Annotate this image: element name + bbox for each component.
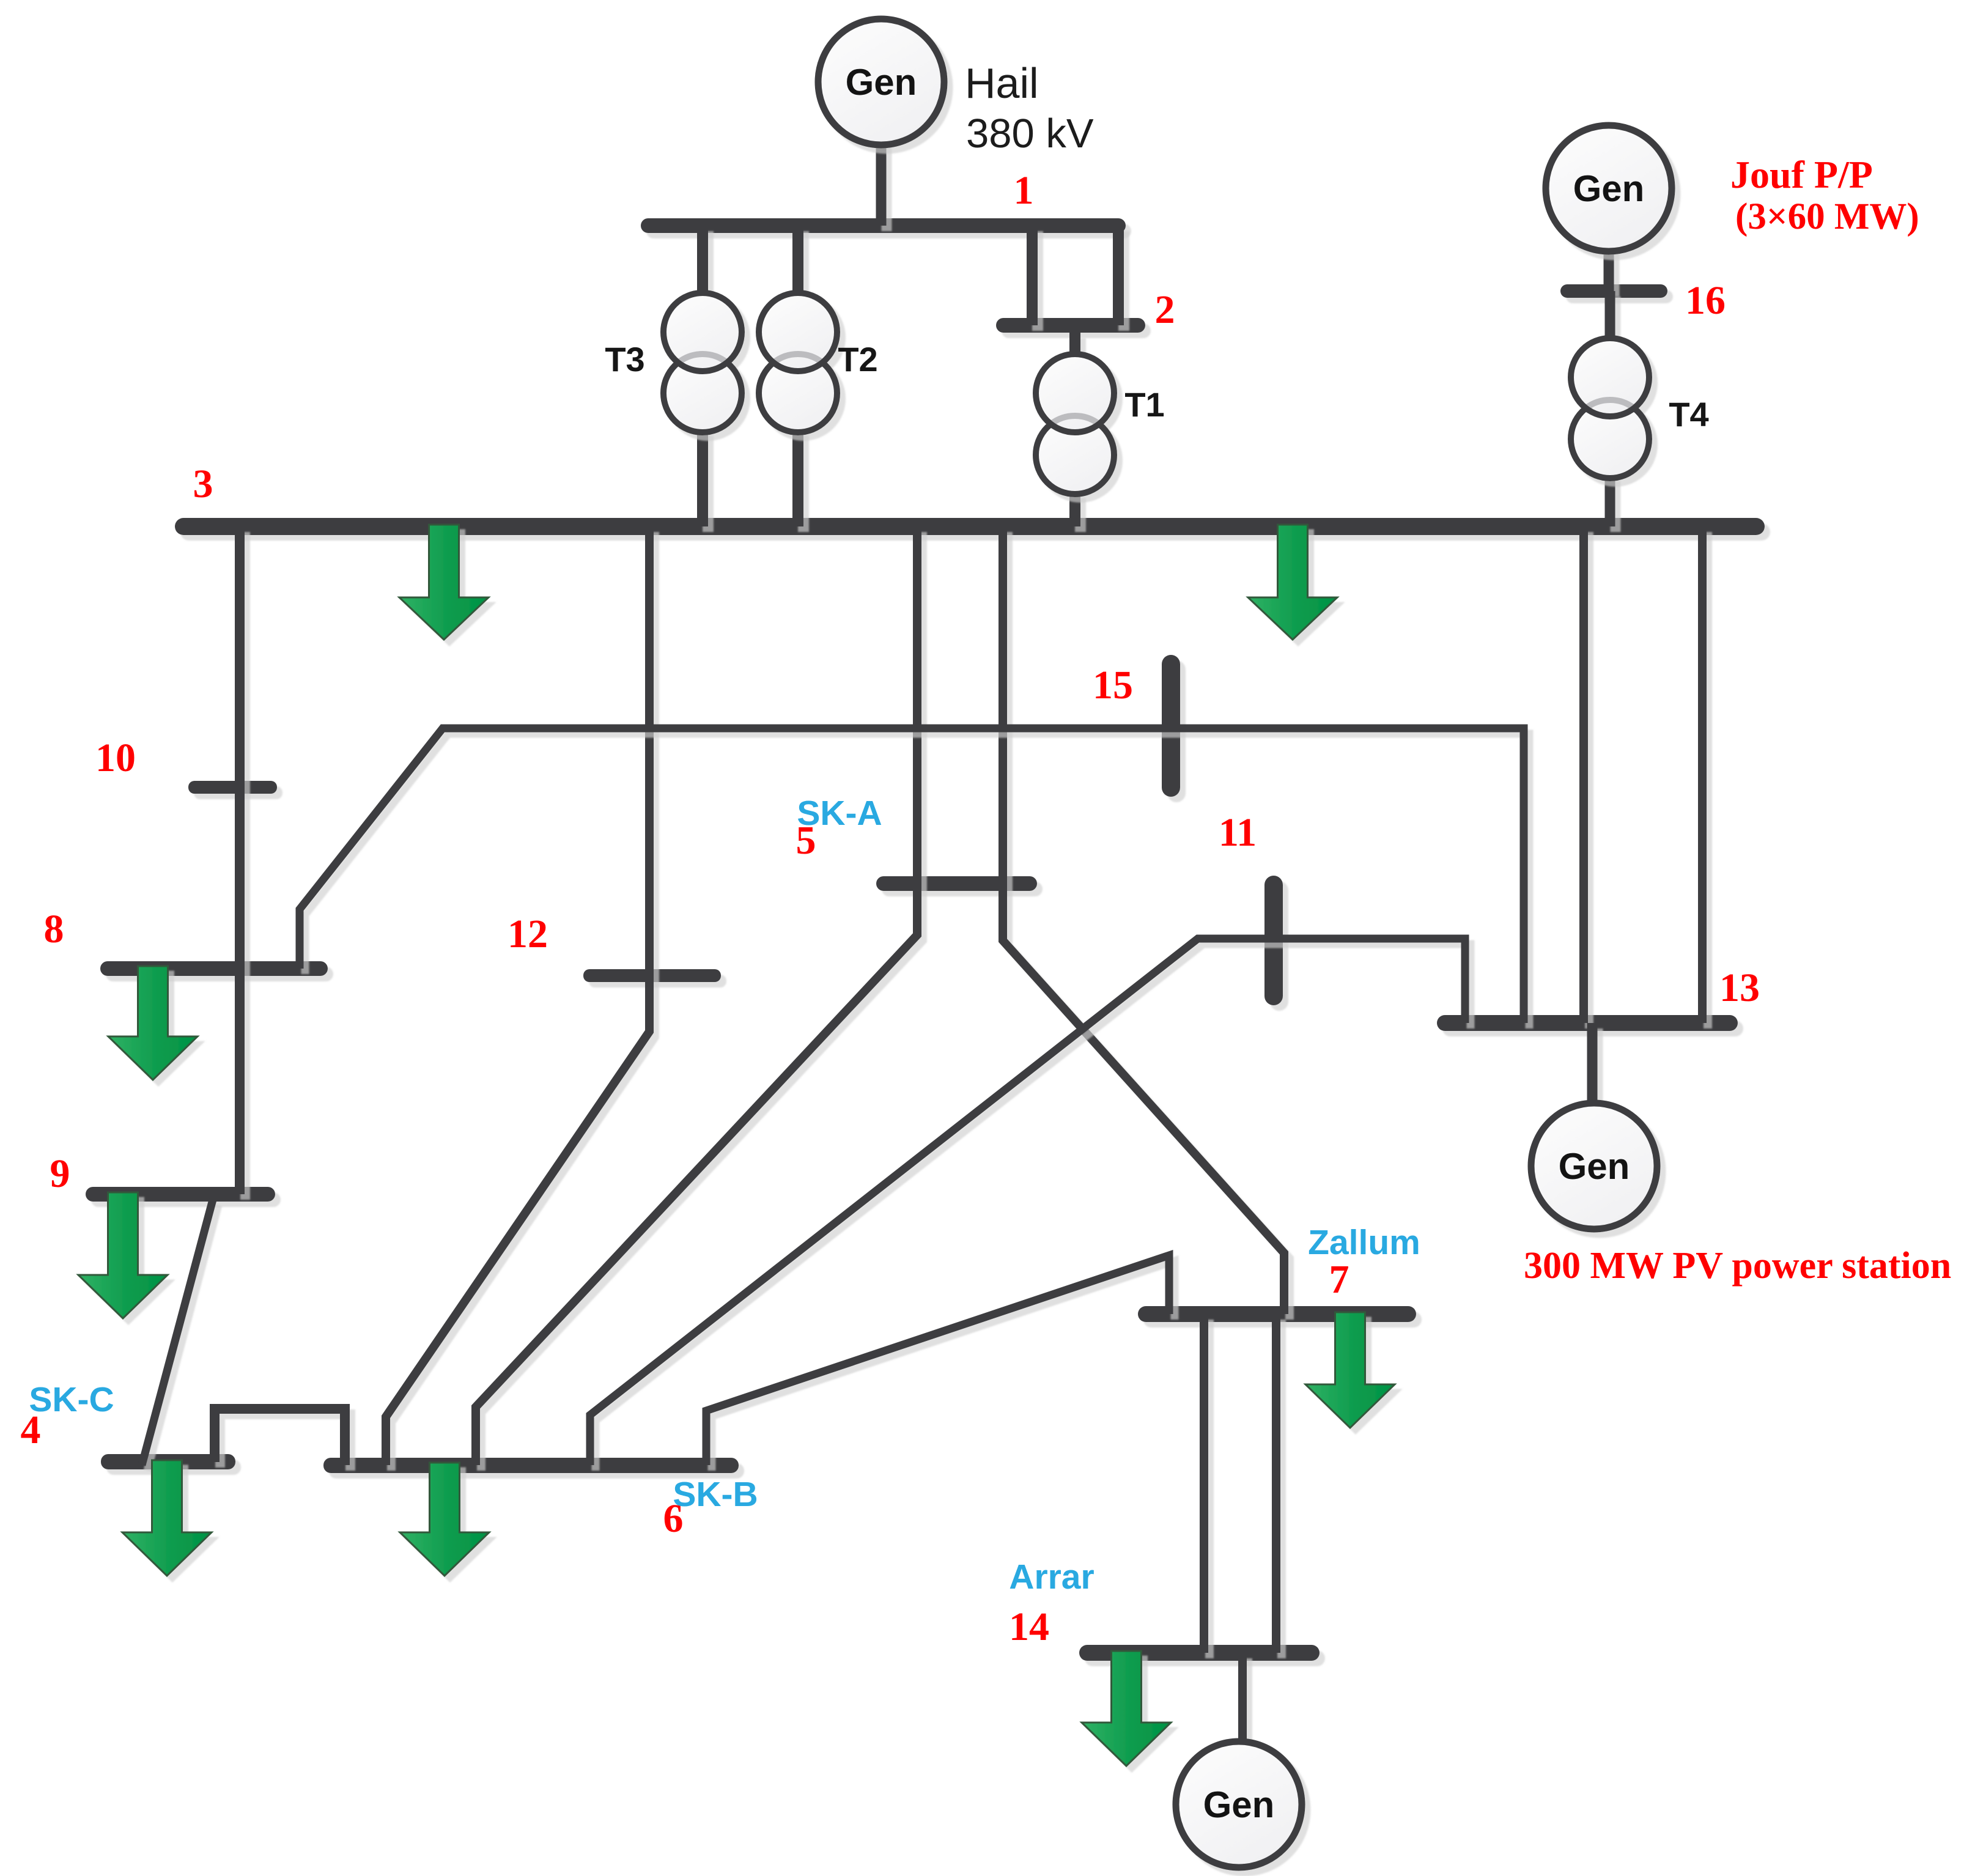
svg-text:300 MW PV power station: 300 MW PV power station (1524, 1245, 1951, 1287)
svg-text:380 kV: 380 kV (966, 111, 1094, 157)
load arrow on bus 6 (400, 1463, 489, 1576)
wire bus 1 to T2 (792, 226, 803, 297)
load arrow on bus 14 (1082, 1651, 1171, 1766)
generator Gen (Hail) (818, 19, 944, 145)
svg-text:T3: T3 (605, 340, 644, 379)
svg-text:SK-B: SK-B (673, 1475, 758, 1514)
svg-text:Gen: Gen (1573, 168, 1645, 209)
svg-text:SK-C: SK-C (29, 1380, 114, 1419)
line bus 7 to bus 14 (left) (1200, 1314, 1208, 1653)
svg-text:T2: T2 (838, 340, 877, 379)
svg-text:2: 2 (1155, 287, 1175, 332)
wire bus 13 to PV Gen (1587, 1023, 1598, 1107)
generator Gen (Arrar) (1176, 1741, 1302, 1867)
bus 3 (main 380 kV bus) (175, 518, 1765, 535)
svg-text:Zallum: Zallum (1308, 1223, 1420, 1262)
load arrow on bus 3 (right) (1248, 525, 1337, 640)
svg-text:16: 16 (1685, 278, 1726, 323)
bus 7 (Zallum busbar) (1138, 1306, 1416, 1322)
bus 12 (583, 969, 721, 982)
wire Gen Hail to bus 1 (876, 138, 887, 226)
wire bus 16 to T4 (1605, 291, 1615, 341)
bus 9 (86, 1187, 275, 1202)
bus 6 (SK-B busbar) (323, 1458, 739, 1473)
line bus 6 to bus 7 (706, 1255, 1169, 1465)
svg-text:Gen: Gen (1559, 1146, 1630, 1187)
line bus 4 to bus 6 (bridge) (215, 1409, 345, 1465)
svg-text:10: 10 (95, 736, 136, 780)
bus 14 (Arrar busbar) (1079, 1645, 1320, 1661)
bus 15 (vertical bar) (1162, 655, 1180, 797)
wire bus 1 to T3 (697, 226, 708, 297)
svg-text:13: 13 (1719, 966, 1760, 1010)
bus 10 (188, 781, 277, 794)
load arrow on bus 7 (1305, 1312, 1395, 1428)
wire bus 1 to bus 2 (left) (1027, 226, 1038, 325)
line bus 3 to bus 13 (left) (1579, 526, 1588, 1023)
line bus 3 through bus 12 to bus 6 (386, 526, 649, 1465)
load arrow on bus 3 (left) (399, 525, 489, 640)
svg-text:T1: T1 (1124, 385, 1164, 424)
line bus 6 through bus 11 to bus 13 (590, 939, 1465, 1465)
svg-text:12: 12 (508, 912, 548, 956)
transformer T4 (1571, 338, 1649, 478)
transformer T2 (759, 293, 837, 432)
svg-text:Gen: Gen (1203, 1784, 1275, 1825)
line bus 8 through bus 15 to bus 13 (300, 728, 1524, 1023)
svg-text:8: 8 (44, 907, 64, 951)
generator Gen (300 MW PV) (1531, 1103, 1657, 1229)
line bus 3 through bus 5 to bus 6 (476, 526, 917, 1465)
svg-text:T4: T4 (1669, 395, 1708, 434)
bus 11 (vertical bar) (1264, 876, 1283, 1005)
svg-text:Hail: Hail (965, 59, 1039, 107)
svg-text:14: 14 (1009, 1605, 1049, 1649)
line bus 3 to bus 13 (right) (1698, 526, 1707, 1023)
line bus 3 to bus 9 (235, 526, 245, 1194)
line bus 7 to bus 14 (right) (1272, 1314, 1280, 1653)
transformer T3 (663, 293, 742, 432)
svg-text:Gen: Gen (846, 62, 917, 103)
bus 16 (1560, 284, 1667, 298)
svg-text:9: 9 (50, 1151, 70, 1196)
wire bus 14 to Gen (1238, 1653, 1247, 1744)
svg-text:(3×60 MW): (3×60 MW) (1735, 196, 1919, 237)
bus 2 (996, 318, 1145, 333)
svg-text:3: 3 (193, 462, 213, 506)
bus 1 (Hail 380 kV busbar) (641, 218, 1126, 233)
wire bus 2 to T1 (1069, 333, 1080, 358)
svg-text:1: 1 (1014, 168, 1034, 213)
svg-text:11: 11 (1219, 810, 1257, 855)
wire T1 to bus 3 (1069, 492, 1080, 526)
load arrow on bus 8 (108, 966, 197, 1080)
wire T4 to bus 3 (1605, 476, 1615, 526)
svg-text:Jouf P/P: Jouf P/P (1730, 153, 1873, 196)
wire Gen Jouf to bus 16 (1604, 248, 1614, 291)
svg-text:Arrar: Arrar (1009, 1557, 1094, 1597)
svg-text:SK-A: SK-A (797, 794, 882, 833)
transformer T1 (1036, 354, 1114, 494)
load arrow on bus 4 (122, 1460, 212, 1576)
line bus 3 through bus 5 to bus 7 (1003, 526, 1284, 1314)
line bus 9 to bus 4 (142, 1200, 213, 1465)
svg-text:7: 7 (1329, 1257, 1349, 1302)
bus 13 (1437, 1015, 1738, 1031)
wire bus 1 to bus 2 (right) (1113, 226, 1124, 325)
bus 4 (SK-C busbar) (101, 1454, 235, 1469)
load arrow on bus 9 (78, 1192, 168, 1318)
bus 8 (100, 961, 328, 976)
generator Gen (Jouf P/P) (1546, 125, 1672, 251)
wire T2 to bus 3 (792, 430, 803, 526)
wire T3 to bus 3 (697, 430, 708, 526)
bus 5 (SK-A busbar) (876, 876, 1037, 891)
svg-text:15: 15 (1093, 663, 1133, 707)
